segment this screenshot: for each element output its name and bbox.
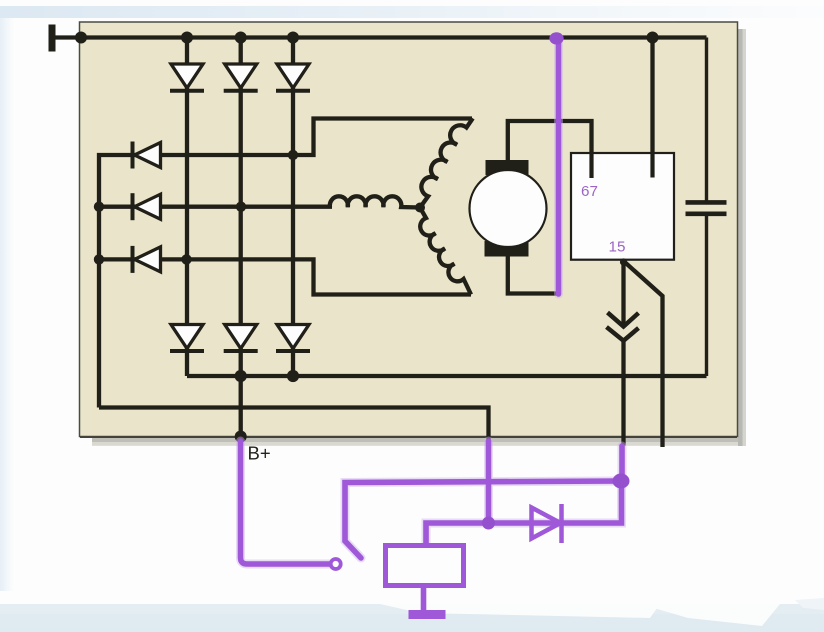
svg-text:67: 67 [581, 183, 598, 200]
svg-text:B+: B+ [248, 443, 271, 464]
svg-text:15: 15 [609, 239, 626, 256]
